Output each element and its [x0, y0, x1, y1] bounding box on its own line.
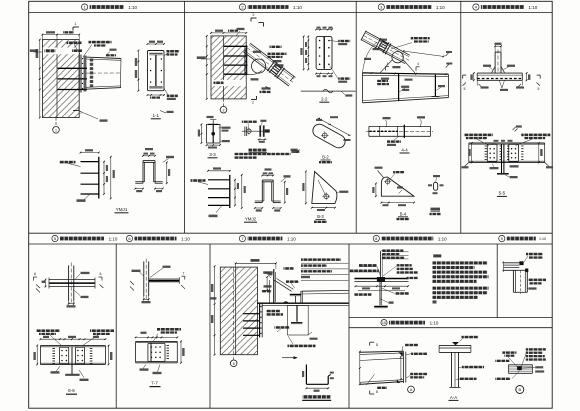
P7 weld bump — [283, 301, 289, 303]
P7 leader list top right — [301, 258, 341, 261]
P3 4-4 bolt dashes — [370, 130, 398, 132]
svg-text:2: 2 — [223, 108, 225, 112]
P2 beam splice perpendicular plates — [267, 61, 275, 71]
P2 2-2 right leaders — [330, 41, 339, 42]
P2 SO mark 2.5 — [291, 149, 298, 151]
P2 2-2 center web — [323, 37, 325, 69]
P1 anchor bar 2 — [58, 78, 88, 80]
svg-text:8: 8 — [376, 343, 378, 347]
P4 splice P mark — [513, 127, 516, 130]
P3 section 4-4 strip — [369, 125, 431, 127]
P5 plan bolts — [53, 282, 55, 284]
P10 circled A — [408, 386, 415, 393]
P4 center V leader — [499, 80, 502, 88]
P4 splice labels top-left — [464, 134, 493, 137]
P7 label 3.2 right — [310, 338, 318, 340]
P5 right bracket mark — [99, 276, 103, 278]
P1 label M16 — [67, 42, 82, 45]
P8 deck thick line — [354, 278, 408, 280]
P3 deck top thick line — [363, 73, 449, 74]
P1 axis circle — [53, 127, 60, 134]
P1 wall bottom label — [100, 119, 108, 121]
P8 parapet vertical — [380, 251, 382, 277]
P8 I-beam bottom flange — [374, 305, 388, 307]
svg-text:1:10: 1:10 — [109, 236, 118, 241]
P1 bottom tick — [160, 111, 166, 114]
P6 7-7 center web — [150, 343, 152, 362]
P3 inclined beam — [366, 31, 410, 55]
P7 under-deck frame — [287, 305, 308, 335]
P1 section 1-1 left dim — [137, 51, 139, 91]
P2 2-2 left dims — [307, 36, 309, 69]
P3 B-4 angle mark — [399, 190, 403, 194]
P1 wall inner line — [56, 40, 58, 118]
P3 B-4 left dim — [375, 184, 377, 197]
P10 A-A stem — [451, 352, 453, 387]
P3 B-4 bolt — [386, 180, 390, 184]
P3 labels along beam — [411, 37, 430, 39]
svg-text:2: 2 — [252, 101, 254, 105]
P7 seat webs — [294, 296, 296, 303]
P1 section 1-1 plate — [148, 51, 165, 91]
P4 bottom end labels — [476, 80, 478, 85]
P8 center bolt block — [377, 277, 385, 282]
P4 splice end weld flags — [465, 162, 469, 166]
P5 6-6 lower labels — [56, 366, 60, 372]
P5 6-6 side dims — [36, 346, 38, 365]
P3 below-deck labels — [377, 80, 388, 82]
P7 labels anchors — [266, 310, 280, 313]
svg-text:4-4: 4-4 — [401, 147, 408, 152]
P7 small dim right of wall — [266, 277, 268, 290]
P1 anchor bar 3 — [58, 89, 88, 91]
P3 angle arc left — [363, 42, 378, 73]
P6 7-7 top dim — [136, 336, 178, 338]
P1 anchor bar 1 — [58, 67, 88, 69]
P9 beam layers — [504, 262, 524, 264]
P10 left box — [360, 351, 404, 352]
svg-text:1:10: 1:10 — [293, 5, 302, 10]
P2 SO caption — [249, 149, 268, 152]
P6 7-7 side dim — [180, 341, 182, 362]
panel divider 8-9 — [496, 244, 498, 318]
P10 left dim line — [359, 352, 361, 385]
P1 bolt column 1 — [82, 58, 83, 59]
P2 gusset circle — [252, 59, 266, 73]
P2 SO nut bar — [265, 129, 270, 132]
P8 right label stack — [397, 264, 412, 266]
P7 left dim — [214, 266, 216, 354]
P2 B-3 diagonal leader — [318, 180, 326, 196]
P3 B-5 small plate — [434, 182, 438, 190]
P4 splice small dims above flange — [494, 140, 499, 142]
P2 SO left plates — [244, 127, 246, 137]
P7 axis circle — [233, 359, 235, 361]
P1 hat bottom dims — [135, 188, 143, 190]
svg-text:1:10: 1:10 — [287, 236, 296, 241]
P5 left dim — [45, 280, 47, 287]
P1 wall hatched — [42, 40, 79, 118]
P1 axis centerline — [55, 118, 57, 127]
P2 B-3 gusset — [312, 172, 337, 204]
title band row1 bottom line — [29, 12, 553, 14]
P7 U channel J profile — [305, 365, 307, 385]
P7 deck main line — [257, 302, 349, 304]
P1 section 1-1 web — [154, 55, 156, 86]
P5 labels above 6-6 — [36, 329, 60, 332]
P10 left box right label — [411, 353, 427, 355]
svg-text:A: A — [410, 388, 413, 392]
svg-text:B: B — [518, 387, 521, 392]
svg-text:YMJ1: YMJ1 — [116, 207, 128, 212]
P1 beam 3.2 label — [107, 52, 110, 55]
P7 label diao-er — [288, 345, 316, 348]
P3 4-4 leaders — [386, 120, 387, 127]
P1 beam center dash — [86, 72, 121, 74]
P8 label M — [389, 301, 394, 303]
P3 B-4 bottom dim — [381, 202, 414, 204]
P4 right dim — [526, 73, 528, 80]
P2 2-2 bottom dim — [316, 73, 332, 75]
panel divider 5-6 — [115, 244, 117, 408]
P1 beam end break — [119, 59, 122, 88]
P4 splice bottom flange — [469, 161, 545, 163]
P2 hat top dims — [262, 174, 273, 176]
P2 3-3 right labels — [222, 127, 231, 129]
P10 bottom-left leader — [367, 374, 375, 385]
P3 gusset to deck lines — [380, 60, 392, 73]
P4 splice center web — [501, 144, 503, 173]
P7 label jishuihe — [284, 267, 294, 270]
P2 hat profile 2 — [262, 179, 273, 181]
svg-text:B-4: B-4 — [400, 211, 407, 216]
title 6 — [126, 235, 132, 241]
P4 splice labels top-right — [521, 134, 550, 137]
P10 circled B — [516, 386, 524, 394]
P1 hat profile — [143, 160, 155, 162]
P2 section mark 2 bottom — [251, 99, 257, 101]
svg-text:2: 2 — [253, 13, 255, 17]
P2 B-2 bolt — [323, 133, 328, 138]
P2 beam center dash — [247, 48, 293, 83]
P2 beam edge line below 2-2 — [301, 90, 356, 92]
P8 gutter connector label — [395, 292, 409, 295]
svg-text:10: 10 — [382, 320, 387, 325]
P2 inclined beam — [250, 43, 295, 77]
P7 U channel label — [303, 395, 331, 398]
P5 plan vertical beam — [68, 265, 70, 300]
P2 hat right dim — [284, 182, 286, 203]
P3 dim along beam — [403, 51, 444, 57]
svg-text:8: 8 — [376, 390, 378, 394]
P7 wall hatched — [220, 267, 257, 355]
P2 left dim — [206, 36, 208, 99]
P7 wall center dash — [233, 267, 235, 358]
P3 B-4 bolt label — [393, 171, 404, 173]
P6 plan beam right end — [178, 277, 180, 284]
P2 SO circle — [247, 129, 251, 133]
P4 beam top elevation flanges — [477, 72, 522, 74]
P2 B-2 corner mark — [291, 150, 299, 153]
P6 labels above 7-7 — [157, 328, 181, 331]
P3 wedge bottom line — [363, 98, 449, 103]
P2 section 3-3 — [207, 124, 220, 143]
svg-text:1-1: 1-1 — [152, 113, 159, 118]
P7 labels mid-left — [264, 285, 272, 287]
svg-text:A-A: A-A — [450, 395, 457, 400]
P3 beam splice plates — [375, 38, 381, 49]
P3 section marks 4 — [385, 67, 387, 71]
P7 bolt plate — [259, 304, 261, 338]
P2 section mark 3 — [266, 87, 271, 90]
P2 beam end cut — [290, 76, 294, 81]
P1 beam top leader label — [83, 45, 92, 58]
title 4 — [473, 4, 479, 10]
svg-text:1: 1 — [80, 111, 82, 115]
P2 2-2 top dim — [316, 29, 332, 31]
P10 weld dim inside right — [400, 357, 402, 380]
P6 plan vertical beam — [143, 261, 145, 296]
svg-text:4: 4 — [387, 62, 389, 66]
P1 hat top dim — [143, 155, 155, 157]
title 9 — [499, 235, 505, 241]
P7 label fangshui — [286, 280, 299, 283]
P8 label below left — [353, 286, 355, 288]
P1 section 1-1 I beam flanges — [149, 52, 162, 54]
P1 wall text gap label — [43, 48, 79, 55]
P2 SO top-left label — [242, 121, 257, 123]
title 10 — [381, 320, 387, 326]
P1 section 1-1 bolts — [150, 58, 152, 60]
P4 beam bolt dash row — [477, 78, 522, 80]
P3 vertical web 2 — [434, 75, 436, 97]
P7 label shuiluokou — [263, 271, 273, 274]
P4 splice plates — [487, 144, 497, 162]
svg-text:6: 6 — [34, 272, 36, 276]
P4 left dim — [473, 73, 475, 80]
P4 splice lower labels — [490, 167, 499, 169]
P7 left label — [210, 297, 216, 299]
P8 deck dim line — [356, 285, 409, 287]
svg-text:6: 6 — [233, 362, 235, 366]
P8 top label stack with rules — [382, 249, 403, 251]
P8 notes title — [433, 254, 441, 257]
P1 section 1-1 bottom dim — [148, 94, 165, 96]
P10 A-A top weld triangle — [452, 342, 459, 345]
P6 right bracket mark — [181, 275, 184, 277]
P2 hat bottom dims — [255, 207, 262, 209]
svg-text:1:10: 1:10 — [430, 320, 439, 325]
P3 right end marks — [446, 53, 449, 56]
P9 beam left end ticks — [503, 261, 505, 272]
P10 right detail leaders — [508, 357, 517, 367]
P2 wall face bolts — [245, 50, 246, 51]
P1 top dim — [42, 34, 79, 36]
P9 labels — [526, 253, 543, 256]
panel divider 6-7 — [209, 244, 211, 408]
P9 column walls — [512, 270, 514, 292]
P2 top leader — [236, 31, 240, 36]
P2 left label — [197, 56, 206, 59]
title 7 — [239, 235, 245, 241]
P6 bottom dim — [143, 296, 145, 300]
svg-text:5-5: 5-5 — [499, 191, 506, 196]
P1 left small label — [30, 49, 38, 52]
P7 gutter upright — [273, 269, 275, 303]
P2 wall hatched — [211, 36, 246, 99]
P1 vertical dim text column — [90, 59, 93, 62]
P2 B-3 bolt — [324, 194, 329, 199]
P1 connection plate — [83, 56, 85, 92]
svg-text:YMJ2: YMJ2 — [245, 217, 257, 222]
svg-text:2-2: 2-2 — [321, 97, 328, 102]
svg-text:5: 5 — [464, 87, 466, 91]
P9 column bottom — [513, 291, 527, 293]
P2 3-3 top mark — [210, 119, 216, 121]
P2 section mark 2 top — [251, 17, 257, 19]
band 10 title lines — [349, 317, 552, 319]
P7 drain arrow — [282, 357, 297, 359]
P10 right sandwich detail — [508, 364, 532, 366]
P3 splice bolt dashes — [383, 41, 388, 44]
P8 notes lines — [433, 261, 488, 264]
P4 left section bracket 5 — [463, 74, 467, 76]
P10 left box weld triangles — [399, 352, 403, 356]
svg-text:6: 6 — [100, 272, 102, 276]
P1 YMJ1 comb bars — [81, 161, 99, 163]
P10 right detail bottom label — [495, 378, 510, 380]
P1 beam bottom flange — [86, 88, 121, 90]
P5 6-6 beam ends — [39, 346, 41, 365]
P4 right section bracket 5 — [537, 74, 541, 76]
P3 vertical web 1 — [398, 73, 400, 101]
P4 splice bolts — [489, 148, 491, 150]
P8 left label stack — [359, 264, 377, 267]
P6 plan bolts — [152, 280, 154, 282]
P3 deck dim ticks — [371, 72, 373, 74]
P9 weld block 2 — [525, 269, 528, 273]
P10 right detail left labels — [502, 351, 516, 353]
P3 beam upper end cut — [361, 31, 366, 41]
svg-text:6-6: 6-6 — [68, 388, 75, 393]
P2 B-2 rotated dims — [318, 117, 351, 136]
svg-text:1:10: 1:10 — [128, 5, 137, 10]
P1 YMJ1 bottom leader — [84, 194, 90, 200]
panel divider 3-4 — [460, 1, 462, 233]
svg-text:5: 5 — [538, 87, 540, 91]
P2 SO bottom dim — [257, 138, 266, 140]
P10 right detail right labels — [526, 348, 546, 350]
P5 6-6 top dim — [40, 338, 105, 340]
P2 bolt SO detail axis — [242, 130, 269, 132]
P5 6-6 center web and tee below — [71, 347, 73, 375]
P3 4-4 center line — [366, 130, 433, 132]
P6 7-7 bolts — [151, 346, 153, 348]
P3 B-4 corner leader — [378, 171, 384, 178]
title 3 — [378, 4, 384, 10]
P1 section 1-1 lower leader — [164, 88, 168, 95]
P9 weld block 1 — [519, 261, 523, 265]
svg-text:1:10: 1:10 — [539, 237, 546, 241]
P1 end plate at wall face — [78, 55, 80, 93]
svg-text:7-7: 7-7 — [151, 381, 158, 386]
panel divider 7-8 — [348, 244, 350, 408]
P1 section 1-1 right leader — [164, 53, 169, 57]
P1 YMJ1 top dim — [81, 152, 99, 154]
P2 wall white band — [212, 80, 246, 86]
P10 section marks 8 — [369, 342, 371, 345]
P8 I-beam web below — [379, 282, 381, 306]
P10 left box lower-right labels — [410, 373, 427, 375]
P5 6-6 splice plates — [60, 347, 69, 364]
P7 gutter sloped wall — [274, 280, 291, 291]
svg-text:1:10: 1:10 — [181, 236, 190, 241]
P6 plan horizontal beam right — [149, 278, 180, 280]
svg-text:1:10: 1:10 — [436, 5, 445, 10]
svg-text:1: 1 — [55, 128, 57, 132]
P2 B-3 dims — [305, 172, 307, 204]
P5 6-6 weld marks — [52, 348, 55, 350]
P7 seat flange — [290, 293, 301, 295]
P2 section 2-2 plate — [316, 36, 332, 69]
P6 7-7 splice plate — [148, 343, 165, 361]
P2 gusset arc — [247, 71, 262, 75]
P2 B-3 right label — [339, 191, 348, 193]
P2 3-3 left dim — [200, 124, 202, 143]
P2 2-2 bolts — [319, 40, 321, 42]
P1 hat right dim — [166, 162, 168, 183]
P2 wall inner line — [223, 36, 225, 99]
P4 splice inner dims — [471, 143, 473, 162]
svg-text:1:10: 1:10 — [438, 236, 447, 241]
P2 YMJ2 comb — [229, 175, 231, 208]
P1 beam right small dim — [106, 54, 116, 56]
P4 splice top flange — [469, 142, 545, 144]
P5 plan labels — [81, 272, 90, 274]
P7 roof lines right — [302, 289, 349, 292]
P4 splice web bottom bar — [497, 173, 509, 175]
title 8 — [373, 235, 379, 241]
svg-text:4: 4 — [417, 62, 419, 66]
P2 top dim — [211, 32, 246, 34]
svg-text:7: 7 — [182, 271, 184, 275]
P3 B-5 marks — [428, 184, 432, 186]
P3 4-4 plate ends — [379, 126, 381, 136]
svg-text:B-3: B-3 — [317, 214, 324, 219]
P2 axis centerline and circle — [223, 99, 225, 106]
P4 beam end lines — [476, 73, 478, 80]
svg-text:1:10: 1:10 — [529, 5, 538, 10]
svg-text:1: 1 — [75, 22, 77, 26]
P3 gusset circle — [392, 52, 403, 63]
P10 A-A labels — [462, 336, 479, 339]
svg-text:3-3: 3-3 — [209, 152, 216, 157]
P1 section mark top — [73, 26, 79, 28]
P1 section 1-1 top dim — [148, 43, 165, 45]
P6 7-7 beam flanges — [136, 340, 178, 342]
P2 notes lines — [235, 153, 291, 155]
P6 plan left labels — [132, 270, 141, 272]
P4 splice end lines — [468, 143, 470, 162]
P4 stub base braces — [492, 67, 495, 73]
P1 YMJ1 comb vertical plate — [98, 157, 100, 199]
P3 B-5 label — [431, 208, 441, 211]
P8 deck thin lines — [354, 281, 408, 283]
P2 splice bolt dashes — [276, 64, 281, 68]
panel divider 1-2 — [184, 1, 186, 233]
P4 splice weld stacks — [485, 145, 487, 147]
P5 plan beam end lines — [48, 278, 50, 289]
